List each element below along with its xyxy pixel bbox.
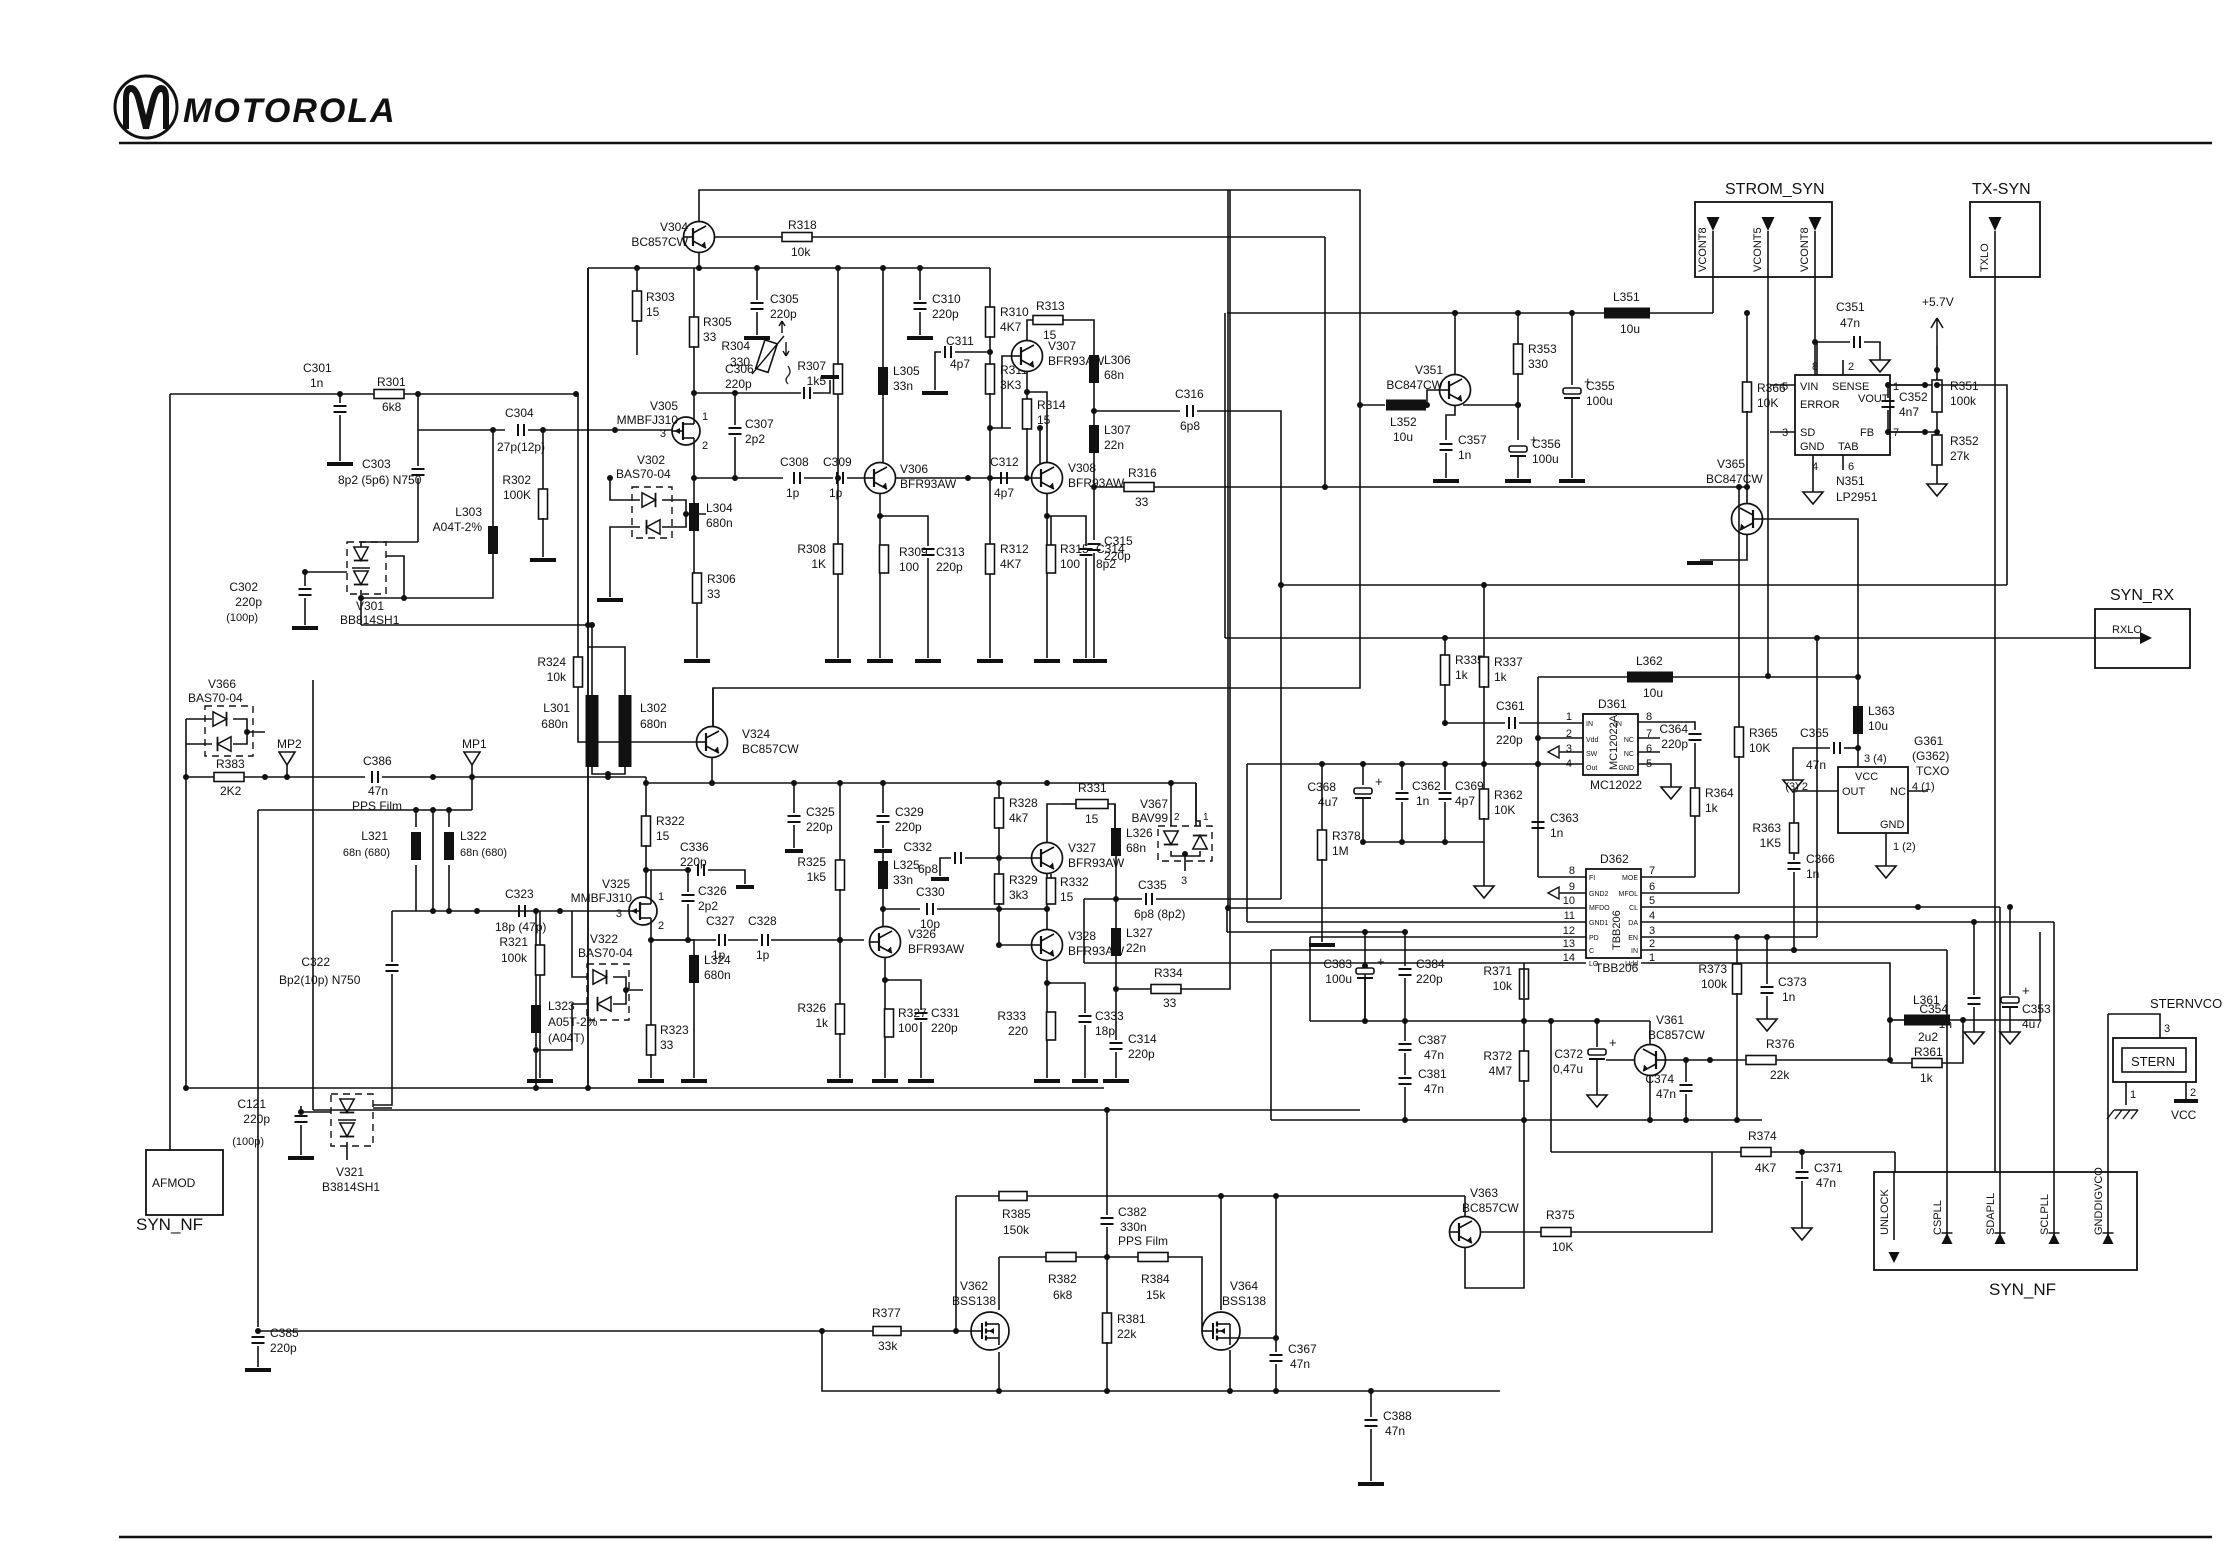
inductor L352: [1357, 400, 1426, 445]
capacitor C353: [2000, 904, 2051, 1044]
svg-text:L301: L301: [543, 701, 570, 715]
clk arrow D362 pin9: [1548, 887, 1586, 899]
jfet V325: [571, 877, 664, 932]
wire TXLO drop: [1994, 277, 1996, 1174]
capacitor C307: [729, 390, 775, 481]
wire V364 source: [1227, 1350, 1233, 1394]
varactor pair V321: [322, 1094, 392, 1194]
svg-text:Out: Out: [1586, 765, 1597, 772]
svg-text:Vdd: Vdd: [1586, 737, 1599, 744]
transistor V351: [1386, 363, 1470, 406]
svg-text:1n: 1n: [1782, 990, 1795, 1004]
capacitor C366: [1788, 852, 1836, 953]
svg-text:2p2: 2p2: [698, 899, 718, 913]
svg-text:R306: R306: [707, 572, 736, 586]
wire D361 pin4 line: [1247, 761, 1583, 767]
svg-text:220p: 220p: [1104, 549, 1131, 563]
svg-text:SW: SW: [1586, 751, 1598, 758]
svg-text:4p7: 4p7: [950, 357, 970, 371]
MP2: [277, 737, 302, 777]
svg-text:(100p): (100p): [226, 612, 258, 624]
svg-text:PPS Film: PPS Film: [352, 799, 402, 813]
svg-text:220p: 220p: [235, 595, 262, 609]
svg-text:V351: V351: [1415, 363, 1443, 377]
svg-text:C356: C356: [1532, 437, 1561, 451]
svg-text:D361: D361: [1598, 697, 1627, 711]
svg-text:R302: R302: [502, 473, 531, 487]
svg-text:R385: R385: [1002, 1207, 1031, 1221]
svg-text:5: 5: [1782, 381, 1788, 393]
wire V307 collector: [1027, 320, 1034, 340]
wire V365 emitter: [1687, 535, 1747, 563]
svg-text:MOE: MOE: [1622, 875, 1638, 882]
svg-text:+: +: [2022, 983, 2030, 998]
transistor V307: [1012, 339, 1105, 372]
svg-text:10K: 10K: [1749, 741, 1770, 755]
capacitor C329: [874, 783, 924, 851]
transistor V304: [631, 220, 714, 253]
svg-text:1k: 1k: [1920, 1071, 1934, 1085]
wire R307-R308: [835, 394, 841, 545]
svg-text:3: 3: [2164, 1023, 2170, 1035]
svg-text:C328: C328: [748, 914, 777, 928]
svg-text:VCONT8: VCONT8: [1697, 227, 1709, 272]
svg-text:C385: C385: [270, 1326, 299, 1340]
capacitor C384: [1399, 957, 1446, 1021]
wire L307 down: [1091, 453, 1097, 490]
capacitor C304: [418, 406, 672, 454]
svg-text:100u: 100u: [1325, 972, 1352, 986]
svg-text:2K2: 2K2: [220, 784, 242, 798]
wire V362 source: [998, 1352, 1000, 1391]
inductor L361: [1887, 993, 2040, 1044]
svg-text:C365: C365: [1800, 726, 1829, 740]
svg-text:L326: L326: [1126, 826, 1153, 840]
inductor L304: [689, 478, 733, 574]
svg-text:NC: NC: [1624, 737, 1634, 744]
svg-text:GND: GND: [1800, 441, 1825, 453]
top rule: [119, 142, 2212, 144]
svg-text:R322: R322: [656, 814, 685, 828]
svg-text:V362: V362: [960, 1279, 988, 1293]
svg-text:1n: 1n: [1416, 794, 1429, 808]
svg-text:V364: V364: [1230, 1279, 1258, 1293]
svg-text:15: 15: [1060, 890, 1074, 904]
wire left drop x588: [587, 268, 589, 1088]
svg-text:R383: R383: [216, 757, 245, 771]
capacitor C372: [1553, 1021, 1617, 1107]
svg-text:+: +: [1375, 774, 1383, 789]
svg-text:220p: 220p: [1661, 737, 1688, 751]
wire V351 base: [1424, 390, 1439, 408]
svg-text:R337: R337: [1494, 655, 1523, 669]
svg-text:9: 9: [1569, 881, 1575, 893]
svg-text:15k: 15k: [1146, 1288, 1166, 1302]
svg-text:C335: C335: [1138, 878, 1167, 892]
resistor R324: [537, 394, 697, 742]
inductor L306: [1089, 353, 1131, 383]
svg-text:3: 3: [1782, 427, 1788, 439]
wire D362 pin5 CL: [1641, 904, 2000, 910]
inductor L325: [882, 851, 884, 861]
svg-text:1 (2): 1 (2): [1893, 841, 1916, 853]
svg-text:C387: C387: [1418, 1033, 1447, 1047]
svg-text:C309: C309: [823, 455, 852, 469]
wire x313 vert: [312, 680, 314, 1110]
svg-text:TBB206: TBB206: [1611, 910, 1623, 950]
capacitor C306: [694, 362, 839, 399]
svg-text:TAB: TAB: [1838, 441, 1859, 453]
resistor R373: [1698, 937, 1741, 1120]
svg-text:C312: C312: [990, 455, 1019, 469]
capacitor C361: [1445, 699, 1583, 747]
svg-text:V366: V366: [208, 677, 236, 691]
svg-text:R326: R326: [797, 1001, 826, 1015]
resistor R376: [1710, 1037, 1893, 1082]
svg-text:C381: C381: [1418, 1067, 1447, 1081]
capacitor C373: [1757, 937, 1807, 1031]
svg-text:C372: C372: [1554, 1047, 1583, 1061]
svg-text:R324: R324: [537, 655, 566, 669]
svg-text:V305: V305: [650, 399, 678, 413]
capacitor C314a: [1047, 516, 1125, 661]
svg-text:6: 6: [1646, 743, 1652, 755]
svg-text:VOUT: VOUT: [1858, 393, 1889, 405]
svg-text:V304: V304: [660, 220, 688, 234]
wire R311-R312: [987, 393, 993, 545]
svg-text:33: 33: [660, 1038, 674, 1052]
wire y810 line: [258, 807, 472, 813]
varactor pair V301: [340, 542, 418, 627]
wire x588 join: [587, 268, 589, 1088]
AFMOD box: [136, 1147, 223, 1234]
svg-text:C322: C322: [301, 955, 330, 969]
diode pair V302: [597, 453, 706, 600]
MP1: [462, 737, 487, 810]
svg-text:1K: 1K: [811, 557, 826, 571]
svg-text:68n (680): 68n (680): [460, 847, 507, 859]
wire D362 pin7: [1641, 876, 1695, 878]
inductor L301: [541, 622, 598, 767]
svg-text:ERROR: ERROR: [1800, 399, 1840, 411]
inductor L303: [404, 427, 498, 598]
SYN_RX box: [2095, 587, 2190, 668]
svg-text:G361: G361: [1914, 734, 1944, 748]
inductor L302: [619, 695, 668, 767]
svg-text:SD: SD: [1800, 427, 1815, 439]
svg-text:BC857CW: BC857CW: [631, 235, 688, 249]
capacitor C333: [1047, 983, 1124, 1081]
svg-text:R318: R318: [788, 218, 817, 232]
wire gnd row 842: [1360, 839, 1494, 898]
capacitor C369: [1439, 764, 1485, 842]
svg-text:Udd: Udd: [1625, 961, 1638, 968]
svg-text:C326: C326: [698, 884, 727, 898]
wire bus1110: [313, 1107, 1360, 1113]
svg-text:L307: L307: [1104, 423, 1131, 437]
svg-text:3: 3: [1181, 875, 1187, 887]
svg-text:1p: 1p: [829, 486, 843, 500]
svg-text:NC: NC: [1890, 786, 1906, 798]
svg-text:15: 15: [646, 305, 660, 319]
wire V363 emitter: [1464, 1196, 1466, 1216]
svg-text:BFR93AW: BFR93AW: [900, 477, 957, 491]
svg-text:R303: R303: [646, 290, 675, 304]
resistor R375: [1481, 1152, 1712, 1254]
svg-text:2: 2: [2190, 1087, 2196, 1099]
svg-text:L305: L305: [893, 364, 920, 378]
wire R328-R329: [996, 827, 1002, 875]
Motorola logo: [115, 76, 397, 138]
pin TXLO: [1979, 217, 2002, 277]
svg-text:1K5: 1K5: [1760, 836, 1782, 850]
wire V327 collector: [1047, 804, 1062, 842]
capacitor C386: [352, 754, 646, 813]
capacitor C314: [1103, 1032, 1157, 1081]
svg-text:C314: C314: [1128, 1032, 1157, 1046]
wire top loop: [699, 190, 1360, 727]
svg-text:15: 15: [1043, 328, 1057, 342]
svg-text:+: +: [1377, 954, 1385, 969]
svg-text:1k: 1k: [1494, 670, 1508, 684]
+5.7V arrow: [1922, 295, 1954, 373]
svg-text:220p: 220p: [895, 820, 922, 834]
svg-text:A04T-2%: A04T-2%: [433, 520, 483, 534]
svg-text:V327: V327: [1068, 841, 1096, 855]
svg-text:220p: 220p: [243, 1112, 270, 1126]
svg-text:4K7: 4K7: [1000, 557, 1022, 571]
svg-text:R364: R364: [1705, 786, 1734, 800]
svg-text:100k: 100k: [1950, 394, 1977, 408]
svg-text:R378: R378: [1332, 829, 1361, 843]
wire D362 pin2 IN: [1641, 947, 1947, 953]
svg-text:6k8: 6k8: [1053, 1288, 1073, 1302]
capacitor C301: [303, 361, 353, 464]
svg-text:TCXO: TCXO: [1916, 764, 1949, 778]
wire V351 em right: [1463, 402, 1521, 408]
svg-text:BSS138: BSS138: [952, 1294, 996, 1308]
capacitor C305: [744, 268, 799, 338]
svg-text:6p8 (8p2): 6p8 (8p2): [1134, 907, 1185, 921]
svg-text:3 (4): 3 (4): [1864, 753, 1887, 765]
wire RXLO line: [1225, 624, 2152, 644]
capacitor C371: [1792, 1152, 1843, 1240]
svg-text:1n: 1n: [1806, 867, 1819, 881]
svg-text:L306: L306: [1104, 353, 1131, 367]
svg-text:22n: 22n: [1126, 941, 1146, 955]
svg-text:V365: V365: [1717, 457, 1745, 471]
svg-text:C351: C351: [1836, 300, 1865, 314]
wire rail to R310: [989, 268, 991, 308]
svg-text:12: 12: [1563, 925, 1575, 937]
STROM_SYN box: [1695, 181, 1832, 277]
svg-text:100: 100: [1060, 557, 1080, 571]
svg-text:1n: 1n: [1939, 1017, 1952, 1031]
svg-text:3: 3: [1649, 925, 1655, 937]
svg-text:R372: R372: [1483, 1049, 1512, 1063]
svg-text:V321: V321: [336, 1165, 364, 1179]
svg-text:C307: C307: [745, 417, 774, 431]
pin GNDDIGVCO: [2093, 1014, 2114, 1244]
svg-text:2: 2: [1174, 812, 1180, 823]
ic G361 TCXO: [1785, 734, 1949, 878]
capacitor C121: [232, 1097, 314, 1158]
pin VCONT8 1: [1697, 217, 1720, 277]
capacitor C365: [1783, 726, 1858, 792]
svg-text:BAS70-04: BAS70-04: [616, 467, 671, 481]
svg-text:C316: C316: [1175, 387, 1204, 401]
svg-text:MFOL: MFOL: [1619, 891, 1639, 898]
pin UNLOCK: [1879, 1172, 1900, 1263]
svg-text:13: 13: [1563, 938, 1575, 950]
svg-text:2: 2: [1848, 361, 1854, 373]
wire D361 pin8: [1638, 722, 1695, 730]
svg-text:C303: C303: [362, 457, 391, 471]
wire D362 pin10 bus: [1225, 905, 1586, 911]
svg-text:C366: C366: [1806, 852, 1835, 866]
svg-text:220p: 220p: [725, 377, 752, 391]
svg-text:8: 8: [1569, 865, 1575, 877]
wire V351 emitter: [1446, 406, 1455, 440]
wire VCONT5 drop: [1765, 277, 1771, 679]
wire R385 line: [956, 1193, 1279, 1199]
svg-text:15: 15: [1037, 413, 1051, 427]
svg-text:10u: 10u: [1393, 430, 1413, 444]
svg-text:33: 33: [1135, 495, 1149, 509]
svg-text:V324: V324: [742, 727, 770, 741]
svg-text:L362: L362: [1636, 654, 1663, 668]
svg-text:680n: 680n: [704, 968, 731, 982]
svg-text:4: 4: [1649, 910, 1655, 922]
svg-text:RXLO: RXLO: [2112, 624, 2142, 636]
resistor R363: [1752, 821, 1798, 860]
wire x1228 vert: [1227, 190, 1229, 908]
svg-text:R352: R352: [1950, 434, 1979, 448]
svg-text:B3814SH1: B3814SH1: [322, 1180, 380, 1194]
svg-text:1p: 1p: [712, 948, 726, 962]
svg-text:7: 7: [1893, 427, 1899, 439]
svg-text:100k: 100k: [1701, 977, 1728, 991]
wire AFMOD drop: [169, 394, 171, 1147]
wire V327 base: [999, 857, 1031, 859]
svg-text:1n: 1n: [310, 376, 323, 390]
svg-text:SCLPLL: SCLPLL: [2039, 1194, 2051, 1235]
TX-SYN box: [1970, 181, 2040, 277]
wire V327 emitter: [1044, 874, 1050, 929]
pin SDAPLL: [1985, 907, 2006, 1244]
svg-text:N351: N351: [1836, 474, 1865, 488]
resistor R362: [1480, 764, 1524, 842]
svg-text:6p8: 6p8: [918, 862, 938, 876]
wire V361 emitter: [1649, 1021, 1651, 1044]
svg-text:C382: C382: [1118, 1205, 1147, 1219]
svg-text:IN: IN: [1631, 948, 1638, 955]
wire V351 collector: [1452, 310, 1458, 374]
wire V325 gate line: [392, 908, 629, 914]
svg-text:1k: 1k: [1705, 801, 1719, 815]
svg-text:33: 33: [1163, 996, 1177, 1010]
svg-text:2: 2: [1649, 938, 1655, 950]
wire supply y313: [1227, 310, 1750, 316]
svg-text:33: 33: [703, 330, 717, 344]
wire bus1120: [1271, 1117, 1762, 1123]
svg-text:C367: C367: [1288, 1342, 1317, 1356]
svg-text:VCONT8: VCONT8: [1799, 227, 1811, 272]
svg-text:680n: 680n: [640, 717, 667, 731]
wire V361 out: [1666, 1057, 1713, 1063]
svg-text:+: +: [1609, 1035, 1617, 1050]
svg-text:NC: NC: [1624, 751, 1634, 758]
svg-text:C325: C325: [806, 805, 835, 819]
wire C335 node: [1113, 856, 1119, 928]
capacitor C368: [1307, 764, 1382, 842]
svg-text:VCC: VCC: [2171, 1108, 2197, 1122]
capacitor C322: [279, 911, 399, 1105]
ic D361 MC12022A: [1566, 697, 1652, 792]
svg-text:+5.7V: +5.7V: [1922, 295, 1954, 309]
svg-text:C373: C373: [1778, 975, 1807, 989]
wire L306-L307: [1091, 383, 1097, 425]
svg-text:C310: C310: [932, 292, 961, 306]
svg-text:330n: 330n: [1120, 1220, 1147, 1234]
svg-text:10u: 10u: [1868, 719, 1888, 733]
capacitor C352: [1882, 382, 1929, 435]
svg-text:3: 3: [660, 428, 666, 440]
svg-text:6: 6: [1848, 461, 1854, 473]
svg-text:0,47u: 0,47u: [1553, 1062, 1583, 1076]
svg-text:GND1: GND1: [1589, 920, 1609, 927]
svg-text:L322: L322: [460, 829, 487, 843]
svg-text:CL: CL: [1629, 905, 1638, 912]
svg-text:C327: C327: [706, 914, 735, 928]
svg-text:UNLOCK: UNLOCK: [1879, 1188, 1891, 1235]
svg-text:BSS138: BSS138: [1222, 1294, 1266, 1308]
inductor L363: [1853, 704, 1895, 767]
wire V324 emitter: [712, 688, 714, 727]
svg-text:R333: R333: [997, 1009, 1026, 1023]
wire x1276 vert: [1275, 1196, 1277, 1352]
capacitor C362: [1396, 764, 1442, 842]
wire unlock drop: [1771, 1152, 1895, 1172]
wire L361 right: [2039, 932, 2041, 1020]
svg-text:18p (47p): 18p (47p): [495, 920, 546, 934]
capacitor C327: [706, 914, 735, 962]
svg-text:10u: 10u: [1620, 322, 1640, 336]
svg-text:C323: C323: [505, 887, 534, 901]
svg-text:L323: L323: [548, 999, 575, 1013]
svg-text:C: C: [1589, 948, 1594, 955]
diode pair V366: [186, 677, 265, 777]
wire D361 pin6 stub: [1638, 751, 1660, 753]
resistor R361: [1890, 1020, 1963, 1085]
svg-text:R334: R334: [1154, 966, 1183, 980]
resistor R303: [633, 265, 676, 321]
wire V307 base: [990, 427, 1011, 429]
svg-text:R301: R301: [377, 375, 406, 389]
resistor R329: [995, 873, 1039, 904]
resistor R318: [714, 218, 1325, 259]
svg-text:R314: R314: [1037, 398, 1066, 412]
wire supply rail VCO1: [588, 265, 990, 271]
inductor L351: [1604, 290, 1650, 336]
svg-text:1n: 1n: [1458, 448, 1471, 462]
wire V325 drain: [650, 870, 652, 897]
svg-text:100: 100: [898, 1021, 918, 1035]
svg-text:C364: C364: [1659, 722, 1688, 736]
wire drain line: [999, 1254, 1110, 1260]
resistor R377: [872, 1306, 901, 1353]
svg-text:C301: C301: [303, 361, 332, 375]
